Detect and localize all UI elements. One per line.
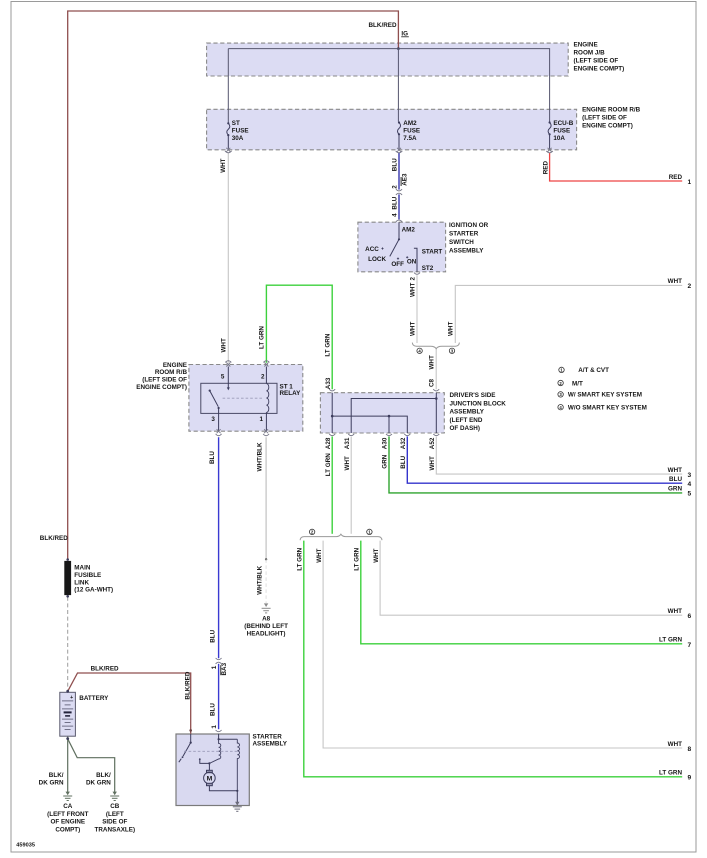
connectors at junction block bottom pins A28 A31 A30 A32 A52 [329,434,439,436]
legend option circles [559,367,564,372]
svg-text:1: 1 [688,179,692,186]
svg-text:WHT: WHT [409,283,416,297]
svg-text:ENGINE COMPT): ENGINE COMPT) [574,65,625,72]
svg-text:GRN: GRN [668,486,682,493]
pin5 lead with arrow [227,367,229,389]
hold contact hook [200,760,210,764]
svg-text:BLK/: BLK/ [96,772,111,779]
wire BLU junction block A32 to right edge row 4 [407,436,682,483]
starter assembly internals [179,734,240,803]
wire WHT right edge row 2 to splice brace [455,285,682,343]
svg-text:ASSEMBLY: ASSEMBLY [450,409,485,416]
wire LT GRN lower splice to right edge row 7 [361,541,682,644]
option circle 1 [367,529,372,534]
ST1 relay top connectors pins 5 and 2 [225,361,269,367]
svg-text:IG: IG [401,30,408,37]
svg-text:(LEFT SIDE OF: (LEFT SIDE OF [142,377,187,384]
ground CA [63,792,72,801]
ground A8 (behind left headlight) [262,603,271,613]
wire J/B internal bus [228,49,549,122]
wire WHT lower splice to right edge row 6 [380,541,682,616]
svg-text:SIDE OF: SIDE OF [102,819,127,826]
wire BLU AM2 fuse to AE3 connector [398,153,400,190]
svg-text:FUSIBLE: FUSIBLE [74,572,101,579]
wire RED ECU-B fuse to right edge row 1 [550,153,683,181]
wire GRN junction block A30 to right edge row 5 [389,436,682,493]
connector marks at R/B bottom: ECU-B fuse exit [546,148,553,153]
connector at junction block A33 [329,389,335,391]
ground starter assembly [233,802,242,812]
contact ST2 [414,248,417,272]
svg-text:WHT: WHT [409,322,416,336]
svg-text:WHT: WHT [668,278,682,285]
relay switch [209,390,211,392]
svg-text:WHT/BLK: WHT/BLK [256,442,263,471]
svg-text:ST2: ST2 [422,265,434,272]
svg-text:BLU: BLU [392,158,399,171]
svg-text:BLU: BLU [209,451,216,464]
svg-text:1: 1 [211,725,218,729]
svg-text:FUSE: FUSE [553,128,570,135]
engine room R/B box (fuse box) [207,109,577,150]
option circle 3 [449,348,454,353]
svg-text:C8: C8 [429,378,436,387]
svg-text:BLU: BLU [210,703,217,716]
wire WHT junction block A52 to right edge row 3 [436,436,682,474]
relay linkage dashed [223,397,264,399]
svg-text:WHT: WHT [448,322,455,336]
svg-text:SWITCH: SWITCH [449,239,474,246]
position tick OFF [397,258,399,260]
junction block internal wiring [331,393,438,433]
starter assembly box [176,734,249,806]
svg-text:RED: RED [542,161,549,175]
svg-text:DK GRN: DK GRN [86,779,111,786]
svg-text:(LEFT SIDE OF: (LEFT SIDE OF [574,57,619,64]
svg-text:9: 9 [688,775,692,782]
svg-text:BATTERY: BATTERY [79,695,109,702]
svg-text:1: 1 [259,416,263,423]
svg-text:CA: CA [63,803,73,810]
svg-text:ENGINE COMPT): ENGINE COMPT) [136,384,187,391]
svg-text:7.5A: 7.5A [403,135,417,142]
svg-text:LT GRN: LT GRN [354,547,361,570]
wire WHT ST fuse to ST1 relay pin 5 [227,153,229,363]
wire BLK/DK GRN battery negative to grounds [67,737,69,792]
svg-text:BLU: BLU [669,476,682,483]
svg-text:GRN: GRN [382,454,389,468]
svg-text:LT GRN: LT GRN [325,333,332,356]
svg-text:IGNITION OR: IGNITION OR [449,222,489,229]
svg-text:ST: ST [232,120,240,127]
svg-text:ASSEMBLY: ASSEMBLY [449,247,484,254]
svg-text:BLK/: BLK/ [49,772,64,779]
svg-text:WHT: WHT [220,158,227,172]
svg-text:W/O SMART KEY SYSTEM: W/O SMART KEY SYSTEM [568,405,647,412]
svg-text:WHT: WHT [344,456,351,470]
svg-text:ENGINE COMPT): ENGINE COMPT) [582,123,633,130]
svg-text:ECU-B: ECU-B [553,120,573,127]
svg-text:(BEHIND LEFT: (BEHIND LEFT [244,623,288,630]
main fusible link [66,558,69,561]
svg-text:LT GRN: LT GRN [659,770,682,777]
svg-text:(LEFT FRONT: (LEFT FRONT [47,811,88,818]
svg-text:COMPT): COMPT) [55,826,80,833]
svg-text:WHT: WHT [316,548,323,562]
svg-text:WHT: WHT [668,467,682,474]
svg-text:A32: A32 [400,437,407,449]
svg-text:OFF: OFF [391,261,404,268]
svg-text:AM2: AM2 [402,227,416,234]
svg-text:LT GRN: LT GRN [259,326,266,349]
option circle 2 [309,529,314,534]
svg-text:BLK/RED: BLK/RED [91,665,119,672]
battery body [60,692,76,736]
svg-text:ROOM R/B: ROOM R/B [155,369,188,376]
svg-text:CB: CB [110,803,120,810]
ground CB [110,792,119,801]
svg-text:WHT: WHT [220,338,227,352]
svg-text:6: 6 [688,613,692,620]
starter switch [190,734,192,743]
svg-text:BLK/RED: BLK/RED [184,671,191,699]
svg-text:1: 1 [211,665,218,669]
connector at starter assembly BLU entry [216,730,222,732]
svg-text:BLU: BLU [392,196,399,209]
position tick ON [406,256,408,258]
svg-text:ROOM J/B: ROOM J/B [574,49,606,56]
svg-text:10A: 10A [553,135,565,142]
svg-text:ON: ON [407,258,417,265]
ignition switch internals [381,222,417,272]
svg-text:3: 3 [211,416,215,423]
svg-text:ACC: ACC [365,246,379,253]
position tick ACC [381,247,383,249]
svg-text:TRANSAXLE): TRANSAXLE) [95,826,136,833]
fuse AM2 7.5A [398,121,401,148]
svg-text:2: 2 [409,277,416,281]
svg-text:BLK/RED: BLK/RED [40,535,68,542]
svg-text:JUNCTION BLOCK: JUNCTION BLOCK [450,400,507,407]
svg-text:WHT: WHT [429,456,436,470]
connector marks at R/B bottom: AM2 fuse exit [396,148,403,153]
svg-text:FUSE: FUSE [403,128,420,135]
svg-text:4: 4 [688,481,692,488]
svg-text:459035: 459035 [16,843,35,849]
ST1 relay inner body [201,383,277,413]
svg-text:LT GRN: LT GRN [659,637,682,644]
svg-text:WHT/BLK: WHT/BLK [256,565,263,594]
svg-text:RED: RED [669,174,683,181]
splice brace with options 4/3 [412,343,459,349]
svg-text:OF DASH): OF DASH) [450,425,480,432]
svg-text:A8: A8 [262,615,271,622]
ST1 relay bottom connectors pins 3 and 1 [216,429,270,436]
svg-text:A33: A33 [325,377,332,389]
svg-text:MAIN: MAIN [74,565,91,572]
svg-text:W/ SMART KEY SYSTEM: W/ SMART KEY SYSTEM [568,392,642,399]
connector at junction block C8 [433,389,439,391]
svg-text:2: 2 [261,374,265,381]
svg-text:2: 2 [392,185,399,189]
svg-text:BLU: BLU [210,629,217,642]
node starter feed dot [189,729,192,732]
svg-text:30A: 30A [232,135,244,142]
svg-text:M/T: M/T [572,380,583,387]
svg-text:RELAY: RELAY [280,390,302,397]
svg-text:A52: A52 [429,437,436,449]
node WHT/BLK splice dot [265,558,267,560]
wire LT GRN junction block A28 to lower splice [331,436,333,533]
svg-text:A/T & CVT: A/T & CVT [578,367,609,374]
wire WHT/BLK faint to ground A8 [265,559,267,603]
svg-text:LT GRN: LT GRN [297,547,304,570]
connector at ignition switch ST2 exit [414,273,420,275]
engine room J/B box [207,43,569,76]
node IG junction dot [397,47,400,50]
option circle 4 [417,348,422,353]
wire WHT/BLK relay pin 1 to splice dot [265,437,267,559]
connector BA3 (in-line, pin 1) [216,658,222,675]
wire WHT junction block A31 to lower splice [350,436,352,533]
starter hold-in coil [237,739,239,791]
svg-text:ENGINE: ENGINE [163,362,187,369]
svg-text:LINK: LINK [74,579,89,586]
svg-text:BLU: BLU [400,455,407,468]
switch blade to LOCK [390,239,399,256]
svg-text:A28: A28 [325,437,332,449]
wire J/B to ST fuse [227,49,229,123]
svg-text:AM2: AM2 [403,120,417,127]
wire BLU BA3 to starter assembly [218,664,220,729]
svg-text:5: 5 [221,374,225,381]
svg-text:4: 4 [392,213,399,217]
svg-text:DK GRN: DK GRN [39,779,64,786]
svg-text:LT GRN: LT GRN [325,453,332,476]
lower splice brace with options 2/1 [300,534,382,540]
BLU lead and top bus [219,734,238,739]
starter linkage dashed [184,750,237,752]
svg-text:ASSEMBLY: ASSEMBLY [253,740,288,747]
svg-text:STARTER: STARTER [449,231,479,238]
connector at ignition switch AM2 entry [396,220,402,222]
wire LT GRN relay pin 2 to junction block A33 [266,285,332,389]
wire BLK/RED battery positive to starter [68,673,191,734]
connector AE3 (in-line, pins 2/4) [396,177,402,195]
fuse ECU-B 10A [548,121,551,148]
svg-text:3: 3 [688,472,692,479]
svg-text:ENGINE ROOM R/B: ENGINE ROOM R/B [582,107,641,114]
battery internal plates [62,701,73,730]
svg-text:ENGINE: ENGINE [574,41,598,48]
svg-text:(LEFT SIDE OF: (LEFT SIDE OF [582,115,627,122]
fuse ST 30A [227,122,230,149]
wire WHT lower splice to right edge row 8 [323,541,682,748]
svg-text:HEADLIGHT): HEADLIGHT) [247,631,286,638]
connector marks at R/B bottom: ST fuse exit [225,148,232,153]
svg-text:A31: A31 [344,437,351,449]
wire LT GRN lower splice to right edge row 9 [304,541,682,777]
svg-text:(LEFT END: (LEFT END [450,417,483,424]
ignition or starter switch assembly box [358,222,446,272]
wire BLK/RED fusible link to battery (dashed) [67,597,69,690]
relay coil pin2 [265,367,267,384]
svg-text:FUSE: FUSE [232,128,249,135]
svg-text:8: 8 [688,746,692,753]
svg-text:OF ENGINE: OF ENGINE [50,819,85,826]
node battery positive junction [66,690,69,693]
wire WHT splice to junction block C8 [435,348,437,390]
wire BLU relay pin 3 to BA3 connector [218,437,220,658]
engine room R/B relay box (ST1 relay outer) [189,365,303,432]
starter motor M [208,763,210,770]
svg-text:DRIVER'S SIDE: DRIVER'S SIDE [450,392,496,399]
svg-text:WHT: WHT [373,548,380,562]
svg-text:7: 7 [688,642,692,649]
svg-text:M: M [207,775,213,782]
ST1 relay internals [209,367,269,432]
svg-text:LOCK: LOCK [368,256,386,263]
svg-text:A30: A30 [382,437,389,449]
wire BLU AE3 connector to ignition switch AM2 [398,194,400,219]
svg-text:BLK/RED: BLK/RED [369,22,397,29]
svg-text:WHT: WHT [429,355,436,369]
svg-text:AE3: AE3 [401,173,408,186]
svg-text:WHT: WHT [668,608,682,615]
svg-text:WHT: WHT [668,741,682,748]
svg-text:2: 2 [688,283,692,290]
driver's side junction block assembly box [320,393,444,433]
wire BLK/RED battery feed: left edge up and across top to IG [68,11,399,561]
wire IG to AM2 fuse [397,49,399,122]
node battery negative junction [66,737,69,740]
starter pull-in coil [209,739,220,763]
svg-text:(LEFT: (LEFT [106,811,124,818]
svg-text:(12 GA-WHT): (12 GA-WHT) [74,587,113,594]
svg-text:START: START [422,249,443,256]
svg-text:BA3: BA3 [221,662,228,675]
svg-text:5: 5 [688,491,692,498]
wire WHT ST2 to splice brace [416,275,418,343]
svg-text:STARTER: STARTER [253,733,283,740]
svg-text:+: + [70,695,73,701]
